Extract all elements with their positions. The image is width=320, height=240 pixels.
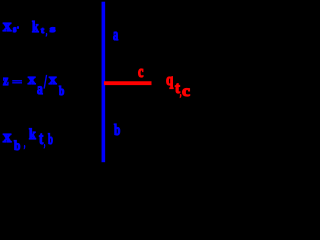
subscript b of k_t,b — [48, 132, 53, 147]
equals sign — [12, 79, 22, 88]
wire: vertical channel (segments a and b), blue — [102, 2, 106, 163]
equation x (denominator) — [49, 73, 57, 88]
comma after x_b — [24, 140, 25, 150]
sigma-tail dot after subscript s — [17, 26, 20, 28]
subscript c of q_t,c — [182, 84, 190, 100]
subscript s of numerator — [37, 82, 43, 98]
label x (stem) main glyph — [3, 18, 11, 35]
subscript s of k_t,s — [50, 25, 55, 34]
subscript s of x_s — [13, 25, 16, 34]
equation z — [3, 74, 8, 89]
wire: horizontal side branch (segment c), red — [104, 81, 152, 85]
label x (branch) main glyph — [3, 129, 11, 146]
subscript t of k_t,s — [41, 26, 44, 35]
segment label b — [114, 123, 120, 139]
flow label q main glyph — [166, 72, 173, 88]
subscript t of k_t,b — [39, 130, 43, 148]
label k (rate) main glyph — [29, 128, 36, 142]
comma in subscript t,s — [46, 29, 47, 37]
segment label a — [113, 27, 118, 44]
division slash — [44, 74, 47, 93]
comma in subscript t,b — [44, 137, 45, 149]
comma in subscript t,c — [180, 89, 181, 99]
label k (rate) main glyph — [32, 20, 39, 36]
subscript b of x_b — [14, 139, 20, 152]
equation x (numerator) — [28, 73, 36, 88]
subscript t of q_t,c — [175, 81, 180, 97]
subscript b of denominator — [59, 84, 64, 97]
segment label c — [138, 64, 143, 81]
